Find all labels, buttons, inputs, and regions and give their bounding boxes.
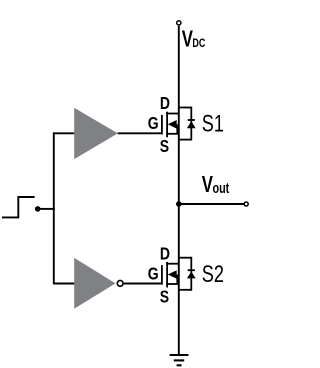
S1 body diode branch bottom — [179, 139, 192, 141]
Vout junction dot — [176, 201, 182, 207]
S2 body arrow — [168, 270, 177, 279]
S2 body diode triangle — [187, 272, 196, 279]
S2 body vertical — [176, 275, 178, 285]
ground — [170, 355, 189, 365]
label VDC — [182, 27, 206, 52]
S2 body diode branch bottom — [179, 289, 192, 291]
input node dot — [35, 206, 41, 212]
wire buffer U1 output to S1 gate — [118, 132, 162, 134]
svg-text:G: G — [148, 114, 159, 133]
S1 gate bar — [161, 115, 163, 135]
svg-text:S: S — [160, 288, 169, 307]
S1 body vertical — [176, 124, 178, 134]
S1 body diode cathode bar — [188, 119, 195, 121]
transistor S1 — [162, 107, 196, 141]
S1 body diode triangle — [187, 121, 196, 128]
wire Vout — [179, 203, 244, 205]
S2 gate bar — [161, 265, 163, 285]
wire left bus vertical — [53, 132, 55, 284]
S2 body diode branch vertical — [190, 257, 192, 291]
wire left bus to buffer U1 input — [54, 132, 75, 134]
S1 body diode branch vertical — [190, 107, 192, 141]
wire input to left bus — [40, 208, 55, 210]
S1 body diode branch top — [179, 107, 192, 109]
svg-text:DC: DC — [192, 37, 205, 51]
S2 body diode cathode bar — [188, 269, 195, 271]
svg-text:D: D — [160, 95, 170, 114]
input step waveform — [2, 197, 35, 217]
svg-text:out: out — [213, 179, 230, 196]
S2 drain horizontal — [166, 263, 179, 265]
svg-text:V: V — [202, 173, 214, 198]
S2 source horizontal — [166, 283, 179, 285]
label Vout — [202, 173, 230, 198]
wire main bus VDC to ground — [178, 26, 180, 355]
svg-text:S: S — [160, 137, 169, 156]
inverter U2 output bubble — [117, 281, 123, 287]
buffer U1 — [74, 108, 118, 159]
svg-text:S1: S1 — [202, 110, 224, 137]
wire left bus to inverter U2 input — [54, 283, 75, 285]
wire bubble to S2 gate — [124, 283, 162, 285]
S1 drain horizontal — [166, 113, 179, 115]
S1 source horizontal — [166, 133, 179, 135]
S2 body diode branch top — [179, 257, 192, 259]
Vout terminal — [244, 202, 248, 206]
S2 channel bar — [166, 262, 168, 288]
svg-text:S2: S2 — [202, 260, 224, 287]
inverter U2 — [74, 258, 115, 309]
svg-text:G: G — [148, 265, 159, 284]
S1 body arrow — [168, 120, 177, 129]
S1 channel bar — [166, 112, 168, 138]
VDC terminal — [177, 21, 181, 25]
transistor S2 — [162, 257, 196, 291]
svg-text:D: D — [160, 245, 170, 264]
